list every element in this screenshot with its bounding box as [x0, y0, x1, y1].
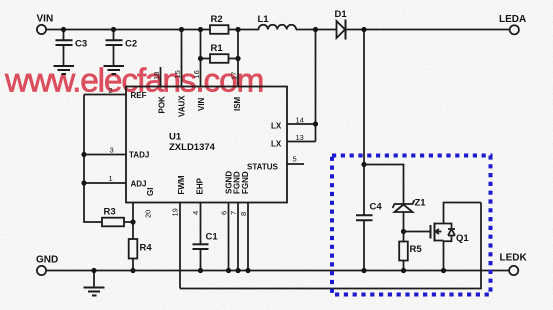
- svg-text:U1: U1: [169, 132, 182, 143]
- svg-text:LEDK: LEDK: [500, 253, 528, 264]
- node R3/R4/pin20: [130, 219, 135, 224]
- ground (rail): [84, 271, 105, 296]
- svg-text:LEDA: LEDA: [499, 14, 526, 25]
- node C1/rail: [198, 268, 203, 273]
- wire ISM pin17 riser: [237, 30, 239, 87]
- svg-text:18: 18: [152, 72, 161, 80]
- resistor R4: [129, 222, 153, 271]
- wire LX riser to rail: [315, 30, 317, 142]
- svg-text:2: 2: [109, 86, 113, 95]
- svg-text:C1: C1: [206, 232, 219, 243]
- wire Q1 drain loop: [444, 203, 482, 224]
- svg-text:1: 1: [109, 174, 113, 183]
- svg-text:VAUX: VAUX: [178, 95, 187, 117]
- node R4/rail: [130, 268, 135, 273]
- svg-text:GI: GI: [146, 188, 155, 196]
- U1 pin 19 wire (FWM net to lower line): [171, 203, 181, 289]
- svg-text:ZXLD1374: ZXLD1374: [169, 142, 216, 153]
- node R1 right: [235, 56, 240, 61]
- svg-text:R1: R1: [211, 43, 224, 54]
- wire R2 to L1: [229, 29, 260, 31]
- svg-text:4: 4: [191, 211, 200, 215]
- node rail/pin15: [179, 27, 184, 32]
- svg-text:VIN: VIN: [37, 14, 54, 25]
- transistor Q1 (NMOS with body diode): [431, 223, 470, 245]
- wire D1 to LEDA: [347, 29, 510, 31]
- U1 pin 18 stub (POK): [152, 67, 161, 87]
- svg-text:FWM: FWM: [177, 175, 186, 194]
- svg-text:VIN: VIN: [197, 97, 206, 111]
- svg-text:20: 20: [144, 210, 153, 218]
- resistor R5: [399, 232, 422, 271]
- node bus/ADJ: [81, 180, 86, 185]
- node VIN/C2: [111, 27, 116, 32]
- svg-text:R2: R2: [211, 14, 223, 25]
- svg-text:POK: POK: [158, 96, 167, 114]
- svg-text:C3: C3: [75, 39, 87, 50]
- svg-text:8: 8: [239, 212, 248, 216]
- resistor R3: [102, 207, 133, 227]
- diode D1: [335, 9, 348, 40]
- svg-text:REF: REF: [131, 91, 147, 100]
- svg-text:LX: LX: [271, 140, 282, 149]
- node rail/pin17: [235, 27, 240, 32]
- svg-text:13: 13: [296, 133, 304, 142]
- node pin6/rail: [226, 268, 231, 273]
- zener Z1: [393, 198, 427, 232]
- terminal LEDK: [500, 253, 528, 276]
- svg-text:ISM: ISM: [233, 96, 242, 111]
- U1 pin 6 stub (SGND): [220, 203, 229, 271]
- node C4/rail: [361, 268, 366, 273]
- U1 pin 7 stub (FGND): [229, 203, 238, 271]
- svg-text:R5: R5: [410, 244, 423, 255]
- U1 pin 5 stub (STATUS): [287, 155, 304, 165]
- node R5/rail: [401, 268, 406, 273]
- wire left bus REF/TADJ/ADJ: [84, 95, 102, 223]
- node rail/pin16: [198, 27, 203, 32]
- svg-text:17: 17: [230, 72, 239, 80]
- wire D1 junction riser: [363, 30, 365, 165]
- svg-text:C2: C2: [125, 39, 137, 50]
- U1 pin 1 stub (ADJ): [84, 174, 126, 183]
- node LX pins: [313, 121, 318, 126]
- svg-text:R3: R3: [104, 207, 116, 218]
- U1 pin 8 stub (FGND): [239, 203, 248, 271]
- capacitor C4: [356, 165, 382, 271]
- svg-text:TADJ: TADJ: [129, 151, 149, 160]
- wire node to Z1: [364, 165, 404, 205]
- svg-text:15: 15: [173, 70, 182, 78]
- resistor R1: [201, 43, 239, 63]
- svg-text:19: 19: [171, 208, 180, 216]
- ground (C2): [104, 66, 125, 74]
- node rail/D1: [361, 27, 366, 32]
- node rail/LX: [313, 27, 318, 32]
- terminal VIN: [37, 14, 54, 35]
- inductor L1: [258, 14, 297, 30]
- U1 pin 20 stub (GI): [133, 203, 153, 223]
- svg-text:Q1: Q1: [456, 233, 469, 244]
- node riser/C4/Z1: [361, 162, 366, 167]
- svg-text:STATUS: STATUS: [247, 163, 278, 172]
- IC U1 ZXLD1374 body: [126, 87, 287, 203]
- wire VIN to R2: [46, 29, 210, 31]
- terminal LEDA: [499, 14, 526, 35]
- svg-text:14: 14: [296, 116, 304, 125]
- wire VIN pin16 riser: [200, 30, 202, 87]
- node VIN/C3: [61, 27, 66, 32]
- svg-text:Z1: Z1: [415, 198, 427, 209]
- svg-text:R4: R4: [140, 243, 153, 254]
- node R1 left: [198, 56, 203, 61]
- capacitor C2: [106, 30, 138, 66]
- svg-text:ADJ: ADJ: [131, 180, 147, 189]
- node bus/TADJ: [81, 152, 86, 157]
- dashed protection box: [332, 156, 491, 295]
- node Z1/R5/gate: [401, 229, 406, 234]
- svg-text:LX: LX: [271, 122, 282, 131]
- svg-text:D1: D1: [335, 9, 348, 20]
- svg-text:C4: C4: [370, 202, 383, 213]
- wire VAUX pin15 riser: [181, 30, 183, 87]
- U1 pin 13 stub (LX): [287, 133, 316, 142]
- node pin8/rail: [245, 268, 250, 273]
- capacitor C3: [56, 30, 88, 66]
- node Q1 source/rail: [441, 268, 446, 273]
- svg-text:EHP: EHP: [195, 177, 204, 194]
- ground (C3): [54, 66, 75, 74]
- svg-text:GND: GND: [36, 255, 58, 266]
- wire gate: [404, 231, 431, 233]
- terminal GND: [36, 255, 58, 276]
- svg-text:7: 7: [229, 211, 238, 215]
- svg-text:L1: L1: [258, 14, 270, 25]
- svg-text:6: 6: [220, 211, 229, 215]
- resistor R2: [210, 14, 229, 34]
- U1 pin 3 stub (TADJ): [84, 146, 126, 155]
- wire L1 to D1: [296, 29, 337, 31]
- U1 pin 4 stub (EHP) + capacitor C1: [191, 203, 218, 271]
- svg-text:5: 5: [293, 155, 297, 164]
- wire lower PWM line: [180, 203, 481, 289]
- U1 pin 14 stub (LX): [287, 116, 316, 125]
- svg-text:3: 3: [110, 146, 114, 155]
- svg-text:16: 16: [192, 70, 201, 78]
- U1 pin 2 stub (REF): [84, 86, 126, 95]
- node pin7/rail: [235, 268, 240, 273]
- wire Q1 source: [443, 241, 445, 271]
- node rail/ground: [91, 268, 96, 273]
- wire bottom rail: [46, 270, 509, 272]
- svg-text:FGND: FGND: [241, 171, 250, 194]
